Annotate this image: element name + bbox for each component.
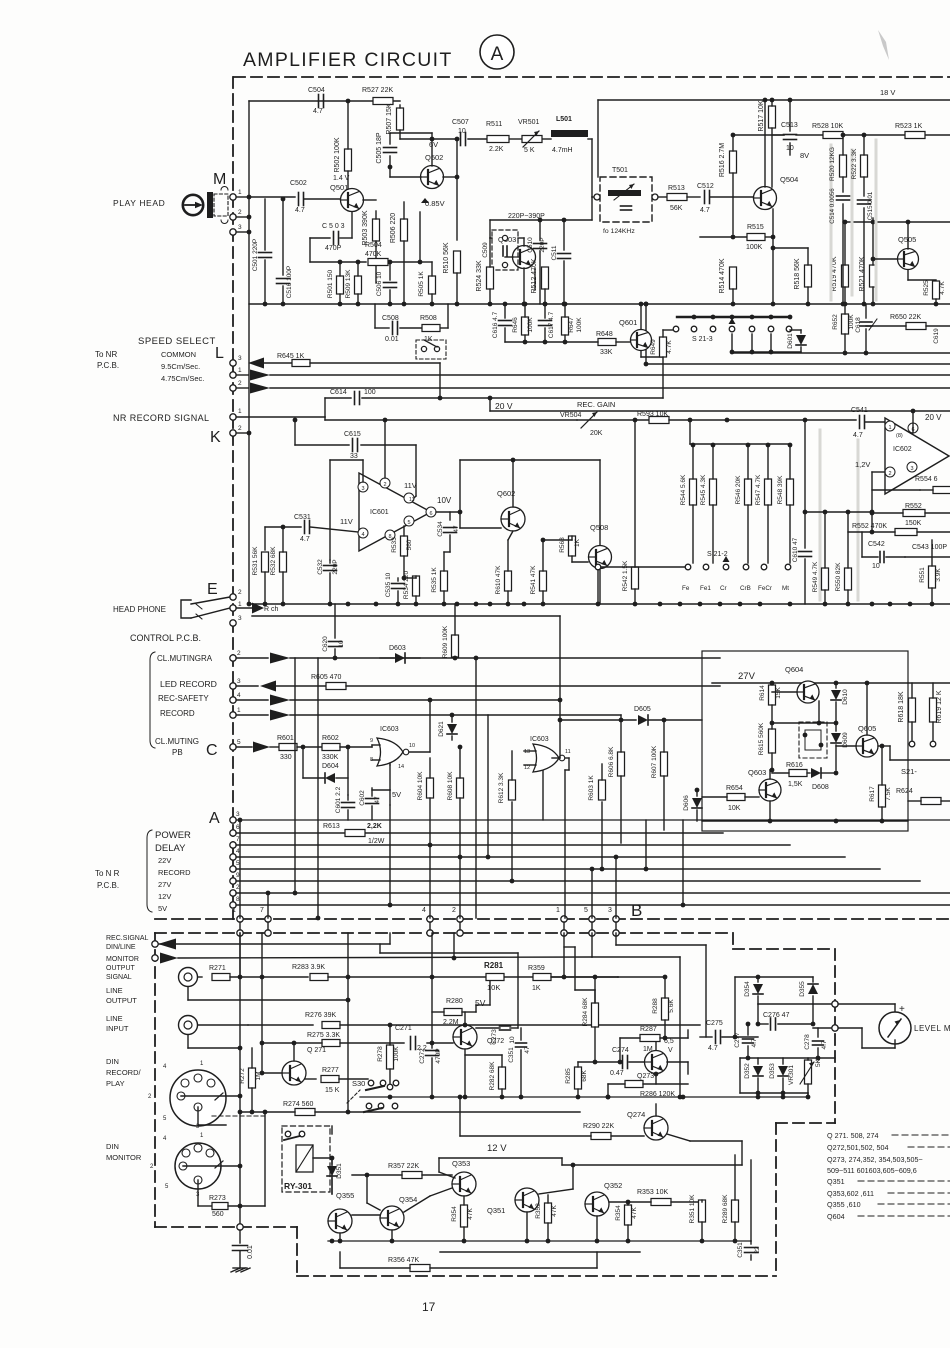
gate IC603b — [533, 744, 559, 772]
svg-text:150K: 150K — [905, 520, 922, 527]
wire Q272 base — [427, 1042, 453, 1044]
svg-text:D608: D608 — [812, 784, 829, 791]
svg-text:Q502: Q502 — [425, 153, 443, 162]
connector A pin 6 — [230, 830, 236, 836]
resistor R616 — [789, 770, 807, 777]
wire 18V to T501 — [597, 100, 599, 177]
svg-text:Q355 ,610: Q355 ,610 — [827, 1200, 861, 1209]
svg-text:R604 10K: R604 10K — [417, 771, 424, 801]
wire C274 row — [578, 1061, 618, 1063]
resistor R356 — [410, 1265, 430, 1272]
svg-text:47: 47 — [524, 1046, 531, 1054]
svg-text:6: 6 — [429, 511, 432, 517]
wire B vertical x348 — [347, 933, 349, 1112]
svg-text:4.7K: 4.7K — [939, 281, 946, 295]
svg-text:1/2W: 1/2W — [368, 838, 385, 845]
resistor R517 — [769, 106, 776, 128]
wire vertical x543 — [542, 771, 544, 820]
wire C503 to Q501 e — [351, 212, 353, 238]
resistor R511 — [487, 136, 509, 143]
wire vertical x430 — [429, 798, 431, 918]
wire R525 down — [935, 299, 937, 305]
legend dash Q353 — [888, 1192, 950, 1194]
wire R521 bottom — [872, 287, 874, 305]
wire Q508 emitter down — [599, 568, 601, 604]
resistor R617 — [879, 785, 886, 807]
svg-text:15 K: 15 K — [325, 1087, 340, 1094]
wire y1165 — [562, 1164, 742, 1166]
wire y1252 — [440, 1251, 640, 1253]
resistor R548 — [787, 479, 794, 505]
svg-text:D621: D621 — [438, 721, 445, 737]
wire IC603a out — [409, 751, 430, 753]
wire monitor to x680 — [592, 956, 680, 958]
svg-text:R275 3.3K: R275 3.3K — [307, 1032, 340, 1039]
wire K2 bus via x247 — [247, 602, 252, 607]
svg-text:DIN/LINE: DIN/LINE — [106, 944, 136, 951]
svg-text:Q355: Q355 — [336, 1191, 354, 1200]
svg-text:47: 47 — [453, 525, 460, 533]
svg-text:C620: C620 — [322, 636, 329, 652]
svg-text:4.7mH: 4.7mH — [552, 147, 573, 154]
wire 27V rail — [712, 682, 908, 684]
svg-text:R281: R281 — [484, 961, 504, 970]
svg-text:R647: R647 — [568, 317, 575, 333]
svg-text:560: 560 — [212, 1211, 224, 1218]
resistor R546 — [745, 479, 752, 505]
wire gate pin14 — [389, 763, 391, 765]
resistor R353 — [651, 1199, 671, 1206]
svg-text:D351: D351 — [336, 1163, 343, 1179]
transistor Q354 — [380, 1206, 404, 1230]
svg-text:3: 3 — [237, 678, 241, 685]
wire K1 — [236, 416, 325, 418]
pin REC.SIGNAL — [152, 941, 158, 947]
inductor L501 — [551, 130, 588, 137]
svg-text:Q273: Q273 — [637, 1073, 654, 1080]
wire Q503 emitter down — [534, 268, 536, 290]
svg-text:Q353,602 ,611: Q353,602 ,611 — [827, 1189, 874, 1198]
svg-text:R650 22K: R650 22K — [890, 314, 921, 321]
border B right dashed lower — [775, 1123, 777, 1276]
wire x518 up — [517, 953, 519, 1028]
svg-text:20 V: 20 V — [495, 401, 513, 411]
connector A pin 4 — [230, 854, 236, 860]
wire Q602 collector up — [512, 460, 514, 507]
svg-text:R354: R354 — [615, 1205, 622, 1221]
border B jog h — [776, 1122, 835, 1124]
resistor R549 — [822, 568, 829, 590]
IC601 pin 2 — [380, 478, 390, 488]
svg-text:R356 47K: R356 47K — [388, 1257, 419, 1264]
wire speed 9.5 — [236, 374, 248, 376]
resistor R520 — [840, 155, 847, 177]
resistor R290 — [591, 1133, 611, 1140]
arrow speed common — [248, 358, 264, 369]
svg-text:C278: C278 — [804, 1034, 811, 1050]
connector A pin 8 — [230, 902, 236, 908]
relay contact — [285, 1131, 291, 1137]
svg-text:1: 1 — [238, 601, 242, 608]
speed switch contact dashed box — [416, 340, 446, 359]
resistor R518 — [805, 265, 812, 287]
resistor R502 — [345, 149, 352, 171]
border A left dashed — [232, 77, 234, 919]
svg-text:S 21-2: S 21-2 — [707, 551, 728, 558]
wire S21-3 c1 down — [731, 334, 733, 352]
transistor Q601 — [631, 330, 652, 351]
svg-text:8V: 8V — [800, 151, 809, 160]
legend dash Q271 — [892, 1134, 950, 1136]
diode D351 — [331, 1160, 333, 1164]
svg-text:R552 470K: R552 470K — [852, 523, 887, 530]
wire R507 bottom — [399, 130, 401, 139]
svg-text:3: 3 — [236, 811, 240, 818]
S21-2 arrow — [723, 556, 730, 562]
svg-text:R282 68K: R282 68K — [489, 1061, 496, 1091]
resistor R593 — [649, 417, 669, 424]
svg-text:R273: R273 — [209, 1195, 226, 1202]
switch S21-3 thick bar — [677, 316, 790, 318]
wire y460 link — [460, 459, 600, 461]
wire S21-2 stub — [597, 570, 599, 604]
wire Q502 collector top — [431, 139, 433, 166]
resistor R354 (left) — [461, 1205, 468, 1227]
svg-text:R280: R280 — [446, 998, 463, 1005]
svg-text:AMPLIFIER CIRCUIT: AMPLIFIER CIRCUIT — [243, 49, 453, 71]
wire C615 right — [361, 444, 416, 446]
connector L pin 3 — [230, 360, 236, 366]
wire box bottom bus — [702, 820, 908, 822]
svg-text:C502: C502 — [290, 180, 307, 187]
wire R519 bottom — [844, 287, 846, 305]
svg-text:1: 1 — [238, 408, 242, 415]
IC602 pin 6 — [908, 423, 918, 433]
wire M1 stub — [236, 196, 249, 198]
resistor R516 — [730, 151, 737, 173]
svg-text:C505 18P: C505 18P — [376, 132, 383, 163]
svg-text:R547 4.7K: R547 4.7K — [755, 474, 762, 505]
capacitor C506 10 — [389, 262, 391, 280]
wire meter minus — [813, 1027, 831, 1029]
svg-text:C273: C273 — [491, 1029, 498, 1045]
wire S21-3 c2 down — [751, 334, 753, 352]
resistor R654 — [727, 794, 745, 801]
svg-text:56K: 56K — [670, 205, 683, 212]
transistor Q605 — [856, 735, 878, 757]
wire main bus y305 — [249, 303, 950, 305]
svg-text:C619: C619 — [933, 328, 940, 344]
svg-text:2,2K: 2,2K — [367, 823, 382, 830]
wire y1025 — [248, 1024, 313, 1026]
transistor Q505 — [898, 249, 919, 270]
svg-text:R287: R287 — [640, 1026, 657, 1033]
wire x706 down — [705, 945, 707, 1037]
svg-text:509~511 601603,605~609,6: 509~511 601603,605~609,6 — [827, 1166, 917, 1175]
connector A pin 2 — [230, 890, 236, 896]
svg-text:100K: 100K — [393, 1046, 400, 1062]
arrow at Q502 emitter — [421, 198, 429, 203]
wire R612 top — [511, 751, 513, 780]
svg-text:4.7: 4.7 — [313, 108, 323, 115]
svg-text:HEAD PHONE: HEAD PHONE — [113, 605, 166, 614]
wire Q605 to S21 — [889, 746, 891, 760]
wire C531 to pin4 — [310, 527, 358, 532]
svg-text:Q505: Q505 — [898, 235, 916, 244]
resistor R504 — [368, 259, 388, 266]
svg-text:C615: C615 — [344, 431, 361, 438]
headphone wires — [191, 597, 230, 604]
wire R502 top — [347, 101, 349, 149]
svg-text:47: 47 — [374, 796, 381, 804]
svg-text:11V: 11V — [340, 517, 353, 526]
wire Q601 emitter — [640, 351, 642, 357]
svg-text:5: 5 — [584, 907, 588, 914]
svg-text:Q504: Q504 — [780, 175, 798, 184]
wire vertical x476 — [475, 658, 477, 918]
svg-text:R357 22K: R357 22K — [388, 1163, 419, 1170]
wire R510 down — [456, 273, 458, 304]
wire 20V bus — [490, 410, 950, 412]
T501 variable inductor — [608, 190, 641, 196]
capacitor C510 220P — [539, 220, 541, 240]
bottom pin 4 upper — [427, 916, 433, 922]
wire C614 left down — [324, 398, 326, 417]
svg-text:FeCr: FeCr — [758, 585, 772, 592]
resistor R544 — [690, 479, 697, 505]
svg-text:220P: 220P — [332, 559, 339, 574]
resistor R531 — [262, 552, 269, 572]
resistor R510 — [454, 251, 461, 273]
wire to C513 — [772, 134, 784, 136]
capacitor C532 220P — [329, 560, 331, 563]
svg-text:R351 10K: R351 10K — [689, 1194, 696, 1224]
svg-text:2: 2 — [238, 589, 242, 596]
svg-text:D601: D601 — [787, 333, 794, 349]
wire vertical x646 — [645, 820, 647, 869]
capacitor C275 — [716, 1031, 721, 1044]
svg-text:R277: R277 — [322, 1067, 339, 1074]
switch S301 link — [347, 1090, 360, 1103]
svg-text:DELAY: DELAY — [155, 843, 186, 854]
svg-text:1,5K: 1,5K — [788, 781, 803, 788]
wire vertical x565 — [564, 770, 566, 918]
capacitor C615 — [353, 439, 358, 452]
svg-text:Q273, 274,352, 354,503,505~: Q273, 274,352, 354,503,505~ — [827, 1155, 923, 1164]
connector C pin 1 — [230, 712, 236, 718]
bottom pin 5 lower — [589, 930, 595, 936]
svg-text:12 V: 12 V — [487, 1143, 507, 1154]
svg-text:C602: C602 — [359, 790, 366, 806]
wire B vertical x592 — [591, 933, 593, 957]
svg-text:R515: R515 — [747, 224, 764, 231]
svg-text:22: 22 — [754, 1246, 761, 1254]
svg-text:A: A — [209, 810, 220, 827]
svg-text:M: M — [213, 171, 226, 188]
capacitor C509 trimmer dashed — [492, 230, 518, 270]
svg-text:1K: 1K — [532, 985, 541, 992]
resistor R284 — [592, 1003, 599, 1027]
wire K1b — [325, 419, 577, 421]
relay RY-301 dashed box — [282, 1126, 330, 1192]
wire CL.MUTINGRA — [236, 657, 268, 659]
resistor R619 — [930, 698, 937, 722]
arrow speed 4.75 — [250, 383, 270, 394]
svg-text:IC601: IC601 — [370, 509, 389, 516]
svg-text:1: 1 — [556, 907, 560, 914]
resistor R351 — [699, 1200, 706, 1222]
wire x751 down — [750, 1160, 752, 1241]
capacitor C271 — [411, 1037, 416, 1050]
wire VR504 row — [577, 419, 648, 421]
wire Q503 base stub — [505, 256, 513, 258]
capacitor C516 100P — [282, 199, 284, 275]
svg-text:R501 150: R501 150 — [327, 270, 334, 299]
wire jack ground — [187, 987, 189, 1000]
resistor R506 — [401, 219, 408, 241]
capacitor C616 — [504, 304, 506, 318]
svg-text:R619 12 K: R619 12 K — [936, 690, 943, 723]
svg-text:2: 2 — [238, 209, 242, 216]
svg-text:R354: R354 — [451, 1206, 458, 1222]
svg-text:20K: 20K — [590, 430, 603, 437]
svg-text:C351: C351 — [737, 1242, 744, 1258]
wire R517 to Q504 — [771, 128, 773, 187]
resistor R289 — [732, 1200, 739, 1222]
capacitor C534 47 — [449, 512, 451, 520]
svg-text:6V: 6V — [429, 140, 438, 149]
wire bus y1097 — [360, 1096, 808, 1098]
svg-text:C501 220P: C501 220P — [252, 239, 259, 272]
border B bottom-left h — [155, 1226, 297, 1228]
svg-text:4.7: 4.7 — [751, 1038, 758, 1047]
wire Q271 base — [262, 1072, 282, 1074]
svg-text:18 V: 18 V — [880, 88, 895, 97]
wire y723 link — [772, 722, 836, 724]
resistor R507 — [397, 108, 404, 130]
svg-text:R502 100K: R502 100K — [334, 137, 341, 172]
relay coil — [296, 1145, 313, 1172]
svg-text:R278: R278 — [377, 1046, 384, 1062]
wire R357 left — [352, 1174, 402, 1176]
svg-text:B: B — [631, 901, 642, 920]
arrow R ch — [252, 603, 264, 614]
wire M3 stub — [236, 231, 249, 233]
wire C275 left — [700, 1036, 712, 1038]
diode D606 — [696, 790, 698, 796]
wire 12V to Q353 — [438, 1158, 440, 1172]
wire R604 top — [429, 758, 431, 778]
wire y222 right — [843, 221, 950, 223]
svg-text:R612 3.3K: R612 3.3K — [498, 772, 505, 803]
connector L pin 1 — [230, 372, 236, 378]
wire vertical x683 — [682, 820, 684, 905]
svg-text:4.7: 4.7 — [708, 1045, 718, 1052]
wire vertical x240 — [239, 820, 241, 918]
svg-text:Q353: Q353 — [452, 1159, 470, 1168]
IC601 pin 5 — [404, 516, 414, 526]
resistor R612 — [509, 780, 516, 800]
svg-text:470P: 470P — [325, 245, 342, 252]
svg-text:Mt: Mt — [782, 585, 789, 592]
svg-text:7: 7 — [260, 907, 264, 914]
svg-text:R615 560K: R615 560K — [758, 722, 765, 755]
coupler internals — [805, 730, 821, 750]
IC601 pin 13 — [404, 493, 414, 503]
resistor R608 — [457, 778, 464, 798]
wire y512 link — [805, 511, 872, 513]
wire R535 top — [443, 552, 445, 571]
svg-text:R524 33K: R524 33K — [476, 260, 483, 291]
svg-text:1M: 1M — [255, 1071, 262, 1080]
wire jack2 down — [187, 1035, 189, 1048]
capacitor C610 47 — [804, 512, 806, 548]
svg-text:R516 2.7M: R516 2.7M — [719, 143, 726, 177]
connector M pin 2 — [230, 214, 236, 220]
wire left rail x249 — [248, 101, 250, 604]
wire IC601 pin2 up — [384, 420, 386, 478]
variable resistor VR301 — [805, 1060, 812, 1084]
wire Q273 collector — [655, 1038, 657, 1050]
diode D352 — [757, 1058, 759, 1064]
wire C615 to IC601 pin13 — [415, 445, 417, 496]
wire IC602 pin2 left — [872, 471, 885, 473]
svg-text:C618: C618 — [855, 317, 862, 333]
svg-text:1: 1 — [237, 707, 241, 714]
svg-text:4: 4 — [422, 907, 426, 914]
svg-text:R507 15K: R507 15K — [386, 103, 393, 134]
wire R516 top — [732, 135, 734, 151]
diode D610 — [835, 683, 837, 688]
bottom pin 7 lower — [265, 930, 271, 936]
svg-text:C512: C512 — [697, 183, 714, 190]
resistor R602 — [322, 744, 340, 751]
wire x460 down — [459, 1097, 461, 1136]
svg-text:10: 10 — [872, 563, 880, 570]
connector E pin 1 — [230, 605, 236, 611]
svg-text:D354: D354 — [744, 981, 751, 997]
resistor R282 — [499, 1067, 506, 1089]
solid box 27V section — [702, 651, 908, 831]
svg-text:C271: C271 — [395, 1025, 412, 1032]
svg-text:R527 22K: R527 22K — [362, 87, 393, 94]
vertical x240 ground path — [239, 933, 241, 1224]
svg-text:PLAY HEAD: PLAY HEAD — [113, 198, 165, 208]
svg-text:R646: R646 — [512, 317, 519, 333]
svg-text:1: 1 — [888, 425, 891, 431]
svg-text:C532: C532 — [317, 559, 324, 575]
svg-text:C601 2.2: C601 2.2 — [335, 786, 342, 813]
svg-text:R353 10K: R353 10K — [637, 1189, 668, 1196]
border A top dashed — [234, 76, 950, 78]
wire Q505 collector — [907, 222, 909, 249]
resistor R542 — [632, 567, 639, 589]
wire C615 up-left — [294, 420, 296, 445]
resistor R535 — [441, 571, 448, 591]
wire 220P node — [490, 219, 592, 221]
wire vertical x318 — [317, 658, 319, 918]
wire R518 link — [773, 247, 808, 249]
svg-text:27V: 27V — [738, 671, 756, 682]
capacitor C511 — [563, 220, 565, 250]
svg-text:NR RECORD SIGNAL: NR RECORD SIGNAL — [113, 413, 209, 423]
arrow RECORD — [270, 710, 290, 721]
svg-text:13: 13 — [524, 749, 530, 755]
resistor R287 — [640, 1035, 660, 1042]
arrow speed 9.5 — [250, 370, 270, 381]
svg-text:11: 11 — [565, 749, 571, 755]
svg-text:10K: 10K — [487, 983, 500, 992]
